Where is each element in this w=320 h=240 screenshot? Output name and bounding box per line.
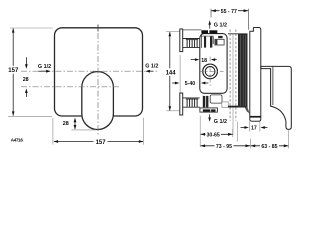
svg-text:144: 144 <box>166 71 177 77</box>
svg-text:G 1/2: G 1/2 <box>214 22 227 28</box>
svg-text:157: 157 <box>96 140 107 146</box>
svg-text:73 - 95: 73 - 95 <box>216 144 232 150</box>
svg-text:28: 28 <box>23 77 29 83</box>
svg-text:157: 157 <box>8 68 19 74</box>
svg-text:28: 28 <box>63 121 69 127</box>
svg-text:G 1/2: G 1/2 <box>214 119 227 125</box>
svg-text:G 1/2: G 1/2 <box>38 64 51 70</box>
svg-text:5-40: 5-40 <box>185 81 195 87</box>
svg-text:G 1/2: G 1/2 <box>145 64 158 70</box>
svg-text:17: 17 <box>251 125 257 131</box>
svg-text:30-65: 30-65 <box>207 132 220 138</box>
svg-text:55 - 77: 55 - 77 <box>221 9 237 15</box>
svg-text:A4716: A4716 <box>11 137 24 142</box>
svg-text:63 - 85: 63 - 85 <box>261 144 277 150</box>
svg-text:18: 18 <box>201 58 207 64</box>
